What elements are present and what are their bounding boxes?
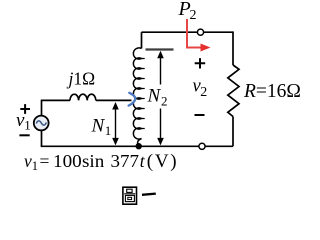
svg-text:j1Ω: j1Ω bbox=[67, 68, 96, 88]
svg-text:2: 2 bbox=[190, 8, 197, 23]
svg-text:1: 1 bbox=[32, 159, 38, 173]
svg-text:sin: sin bbox=[82, 151, 105, 171]
svg-text:1: 1 bbox=[105, 123, 112, 138]
svg-text:377: 377 bbox=[111, 151, 140, 171]
svg-text:2: 2 bbox=[161, 94, 168, 109]
svg-text:(V): (V) bbox=[147, 151, 178, 172]
svg-text:=: = bbox=[40, 151, 50, 171]
svg-text:2: 2 bbox=[200, 85, 207, 100]
svg-text:t: t bbox=[140, 151, 146, 171]
svg-text:1: 1 bbox=[24, 118, 31, 133]
svg-text:100: 100 bbox=[53, 151, 82, 171]
svg-text:R=16Ω: R=16Ω bbox=[243, 81, 301, 102]
svg-text:N: N bbox=[91, 116, 106, 137]
svg-text:N: N bbox=[147, 86, 162, 107]
svg-text:v: v bbox=[24, 151, 32, 171]
